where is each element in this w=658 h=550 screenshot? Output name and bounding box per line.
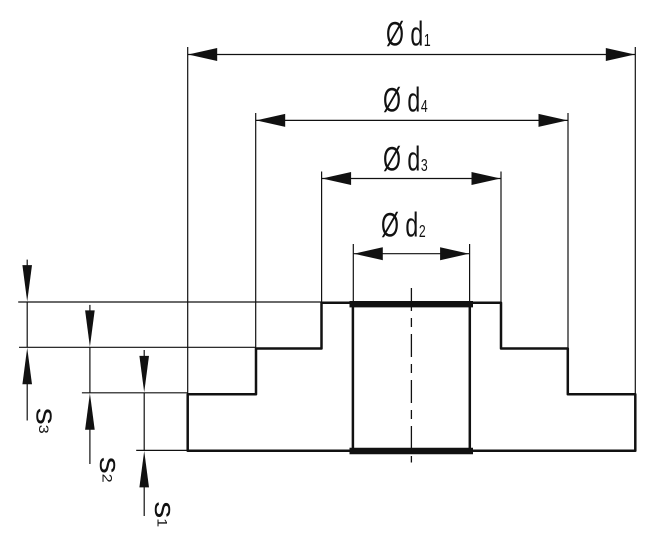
thick seal bar bottom	[350, 448, 474, 454]
dimension d4: dimension line	[256, 119, 568, 121]
dimension d1: right arrowhead	[606, 48, 635, 61]
dimension s1: lower arrowhead (up)	[139, 451, 149, 488]
dimension d2: right arrowhead	[440, 247, 469, 260]
dimension d2: extension line right	[469, 244, 471, 303]
dimension d3: extension line right	[500, 172, 502, 303]
dimension s2: dimension line	[89, 347, 91, 393]
dimension s2: upper tail	[89, 305, 91, 311]
dimension d1: left arrowhead	[188, 48, 217, 61]
dimension s3: lower arrowhead (up)	[22, 348, 32, 385]
dimension s1: lower tail	[143, 486, 145, 516]
centerline	[410, 288, 412, 463]
dimension d4: right arrowhead	[539, 114, 568, 127]
bore right wall	[469, 303, 472, 451]
dimension d3: extension line left	[321, 172, 323, 303]
dimension d2: left arrowhead	[354, 247, 383, 260]
dimension s1: dimension line	[143, 393, 145, 451]
bore left wall	[352, 303, 355, 451]
dimension d3: left arrowhead	[322, 172, 351, 185]
dimension d4: left arrowhead	[256, 114, 285, 127]
dimension d3: right arrowhead	[472, 172, 501, 185]
dimension d1: extension line right	[634, 47, 636, 394]
dimension d2: extension line left	[352, 244, 354, 303]
dimension s2: lower tail	[89, 429, 91, 464]
dimension s2: lower arrowhead (up)	[85, 393, 95, 430]
dimension d2: dimension line	[354, 253, 470, 255]
part outline (stepped washer cross-section)	[188, 303, 636, 451]
dimension s3: lower tail	[26, 383, 28, 420]
dimension s2: upper arrowhead (down)	[85, 310, 95, 347]
s extension line at bottom level	[136, 449, 188, 451]
dimension d4: extension line right	[567, 113, 569, 349]
dimension s3: upper tail	[26, 260, 28, 266]
dimension d4: extension line left	[255, 113, 257, 349]
s extension line at step1 level	[82, 392, 188, 394]
s extension line at step3 level	[18, 301, 321, 303]
dimension s1: upper tail	[143, 350, 145, 356]
dimension s3: dimension line	[26, 302, 28, 347]
s extension line at step2 level	[19, 346, 256, 348]
dimension d1: dimension line	[188, 54, 635, 56]
dimension s1: upper arrowhead (down)	[139, 356, 149, 393]
dimension d1: extension line left	[187, 47, 189, 394]
dimension s3: upper arrowhead (down)	[22, 265, 32, 302]
dimension d3: dimension line	[322, 178, 501, 180]
thick seal bar top	[350, 301, 474, 307]
